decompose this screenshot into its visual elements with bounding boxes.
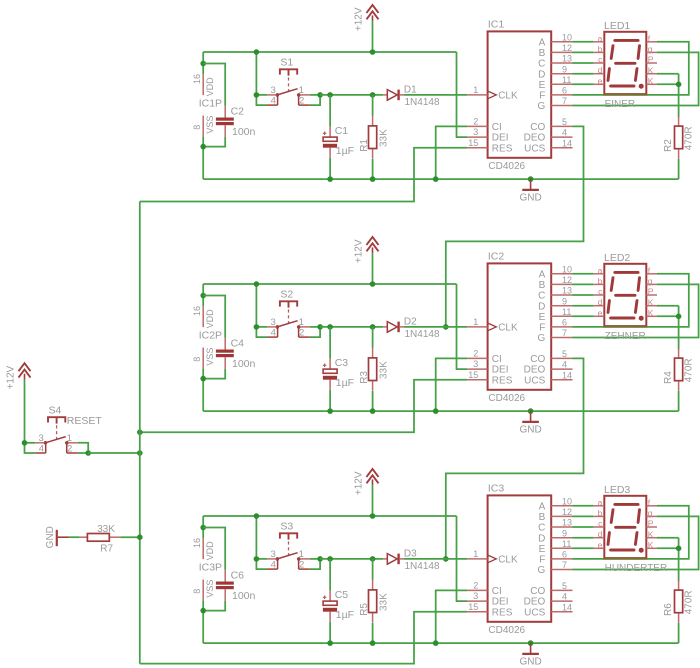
pushbutton S4 RESET <box>22 404 103 455</box>
svg-text:+12V: +12V <box>354 7 365 31</box>
wire C4 top branch <box>203 296 225 338</box>
junction C3 on clock net <box>327 324 333 330</box>
svg-text:CD4026: CD4026 <box>488 393 525 404</box>
svg-text:2: 2 <box>473 580 478 590</box>
svg-text:9: 9 <box>562 528 567 538</box>
svg-text:5: 5 <box>562 349 567 359</box>
resistor R5 33K <box>359 580 390 623</box>
svg-text:VDD: VDD <box>205 77 215 97</box>
wire R7 to reset bus <box>120 536 140 538</box>
junction R5 on GND rail <box>370 640 376 646</box>
svg-text:D: D <box>538 69 545 80</box>
diode D2 1N4148 <box>383 317 440 341</box>
svg-text:7: 7 <box>562 560 567 570</box>
junction R7 on reset bus <box>137 534 143 540</box>
svg-text:B: B <box>539 48 546 59</box>
svg-text:4: 4 <box>271 559 276 570</box>
wire VDD drop (IC3P) <box>202 516 204 538</box>
svg-text:12: 12 <box>562 43 572 53</box>
svg-text:13: 13 <box>562 286 572 296</box>
wire GND rail (IC1 stage) <box>203 178 678 180</box>
svg-text:1N4148: 1N4148 <box>405 97 440 108</box>
wire segment G net (IC2 to LED2) <box>573 284 699 337</box>
ground GND (IC1 stage) <box>519 179 541 203</box>
svg-text:C3: C3 <box>335 357 349 369</box>
svg-text:CI: CI <box>492 122 502 133</box>
svg-text:CD4026: CD4026 <box>488 161 525 172</box>
svg-text:c: c <box>598 55 603 65</box>
svg-text:DEI: DEI <box>492 133 509 144</box>
wire C6 bottom branch <box>203 601 225 611</box>
junction VSS/C4 <box>200 376 206 382</box>
svg-text:15: 15 <box>468 370 478 380</box>
svg-text:3: 3 <box>473 591 478 601</box>
wire C3 drop <box>329 327 331 359</box>
svg-text:8: 8 <box>192 589 202 594</box>
svg-text:1N4148: 1N4148 <box>405 561 440 572</box>
svg-text:GND: GND <box>519 192 541 203</box>
wire GND rail (IC2 stage) <box>203 410 678 412</box>
junction switch branch on rail (S2) <box>254 281 260 287</box>
svg-text:GND: GND <box>45 526 56 548</box>
wire VDD drop (IC1P) <box>202 52 204 74</box>
wire K net (LED3 cathodes) <box>657 538 679 582</box>
svg-text:13: 13 <box>562 518 572 528</box>
svg-text:9: 9 <box>562 296 567 306</box>
svg-text:4: 4 <box>562 360 567 370</box>
wire segment F net (IC3 to LED3) <box>573 506 689 559</box>
wire segment B net (IC1 to LED1) <box>573 51 594 53</box>
svg-text:2: 2 <box>67 443 72 454</box>
junction +12V stem (IC1 stage) <box>370 49 376 55</box>
svg-text:33K: 33K <box>379 361 390 379</box>
svg-text:CD4026: CD4026 <box>488 625 525 636</box>
wire RES pin 15 to reset bus (IC3) <box>140 612 467 664</box>
svg-text:3: 3 <box>473 127 478 137</box>
svg-text:8: 8 <box>192 357 202 362</box>
svg-text:VSS: VSS <box>205 348 215 366</box>
svg-text:LED2: LED2 <box>604 252 630 264</box>
svg-text:33K: 33K <box>379 129 390 147</box>
svg-text:100n: 100n <box>232 590 256 602</box>
junction reset bus (IC2) <box>137 429 143 435</box>
junction K net (LED3) <box>676 546 682 552</box>
wire C4 bottom branch <box>203 369 225 379</box>
svg-text:14: 14 <box>562 602 572 612</box>
wire R5 drop <box>372 559 374 580</box>
svg-text:a: a <box>598 497 603 507</box>
svg-text:R6: R6 <box>663 603 674 616</box>
wire switch branch (S3) <box>255 516 257 559</box>
svg-text:16: 16 <box>192 306 202 316</box>
7-segment display LED1 <box>594 20 657 110</box>
svg-text:S2: S2 <box>280 289 293 301</box>
svg-text:S3: S3 <box>280 521 293 533</box>
svg-text:C: C <box>538 291 545 302</box>
wire D3 cathode to CLK pin 1 <box>404 558 467 560</box>
junction R1 on GND rail <box>370 176 376 182</box>
svg-text:E: E <box>539 80 546 91</box>
resistor R2 470R <box>663 116 694 159</box>
wire segment G net (IC3 to LED3) <box>573 516 699 569</box>
svg-text:100n: 100n <box>232 126 256 138</box>
wire CI pin 2 to GND (IC3) <box>436 590 467 643</box>
capacitor C4 100n <box>216 337 256 370</box>
wire CI pin 2 to GND (IC1) <box>436 126 467 179</box>
wire clock net S3 to D3 <box>320 558 383 560</box>
svg-text:R7: R7 <box>100 543 113 554</box>
wire segment E net (IC2 to LED2) <box>573 315 594 317</box>
wire CO pin 5 of IC1 to next stage clock <box>446 126 584 327</box>
junction VDD/C6 (IC3P) <box>200 525 206 531</box>
wire R4 to GND rail <box>678 391 680 411</box>
svg-text:2: 2 <box>299 559 304 570</box>
svg-text:100n: 100n <box>232 358 256 370</box>
svg-text:HUNDERTER: HUNDERTER <box>605 563 668 574</box>
svg-text:e: e <box>598 308 603 318</box>
svg-text:CLK: CLK <box>498 90 518 101</box>
svg-text:9: 9 <box>562 64 567 74</box>
svg-text:K: K <box>648 540 654 550</box>
svg-text:c: c <box>598 519 603 529</box>
wire clock net S1 to D1 <box>320 94 383 96</box>
svg-text:CLK: CLK <box>498 322 518 333</box>
capacitor C1 1µF <box>323 125 354 158</box>
svg-text:E: E <box>539 544 546 555</box>
wire segment A net (IC1 to LED1) <box>573 41 594 43</box>
svg-text:11: 11 <box>562 75 571 85</box>
junction K net (LED1) <box>676 82 682 88</box>
junction next stage clock (from IC2 CO) <box>443 556 449 562</box>
svg-text:DEO: DEO <box>524 365 546 376</box>
wire VSS to GND rail (IC3P) <box>202 601 204 644</box>
svg-text:CO: CO <box>530 586 545 597</box>
svg-text:1µF: 1µF <box>336 377 354 389</box>
svg-text:DEO: DEO <box>524 597 546 608</box>
resistor R6 470R <box>663 580 694 623</box>
wire segment D net (IC2 to LED2) <box>573 305 594 307</box>
svg-text:LED3: LED3 <box>604 484 630 496</box>
svg-text:VDD: VDD <box>205 541 215 561</box>
svg-text:UCS: UCS <box>524 607 545 618</box>
junction C1 on GND rail <box>327 176 333 182</box>
svg-text:1N4148: 1N4148 <box>405 329 440 340</box>
svg-text:1µF: 1µF <box>336 609 354 621</box>
diode D3 1N4148 <box>383 549 440 573</box>
svg-text:2: 2 <box>473 348 478 358</box>
wire VDD drop (IC2P) <box>202 284 204 306</box>
svg-text:F: F <box>539 555 545 566</box>
wire C2 bottom branch <box>203 137 225 147</box>
wire GND rail (IC3 stage) <box>203 642 678 644</box>
svg-text:C: C <box>538 59 545 70</box>
svg-text:IC1: IC1 <box>488 18 505 30</box>
wire segment F net (IC2 to LED2) <box>573 274 689 327</box>
wire C2 top branch <box>203 64 225 106</box>
supply +12V symbol (IC3 stage) <box>354 469 379 495</box>
svg-text:F: F <box>539 323 545 334</box>
svg-text:C: C <box>538 523 545 534</box>
svg-text:RES: RES <box>492 375 513 386</box>
wire +12V stem (IC1 stage) <box>372 21 374 52</box>
svg-text:K: K <box>648 76 654 86</box>
wire D2 cathode to CLK pin 1 <box>404 326 467 328</box>
wire VSS to GND rail (IC1P) <box>202 137 204 180</box>
svg-text:G: G <box>538 565 546 576</box>
wire switch branch (S2) <box>255 284 257 327</box>
svg-text:e: e <box>598 540 603 550</box>
svg-text:10: 10 <box>562 32 572 42</box>
svg-text:D1: D1 <box>404 85 417 96</box>
svg-text:2: 2 <box>299 95 304 106</box>
junction K net (LED2) <box>676 314 682 320</box>
svg-text:1: 1 <box>473 317 478 327</box>
svg-text:A: A <box>539 269 546 280</box>
junction R1 on clock net <box>370 92 376 98</box>
wire RES pin 15 to reset bus (IC2) <box>140 380 467 432</box>
wire segment D net (IC3 to LED3) <box>573 537 594 539</box>
junction switch branch on rail (S3) <box>254 513 260 519</box>
wire segment B net (IC2 to LED2) <box>573 283 594 285</box>
svg-text:K: K <box>648 529 654 539</box>
7-segment display LED2 <box>594 252 657 342</box>
wire D1 cathode to CLK pin 1 <box>404 94 467 96</box>
wire switch branch (S1) <box>255 52 257 95</box>
wire DEI drop to pin 3 of IC2 <box>457 284 468 369</box>
svg-text:+12V: +12V <box>354 239 365 263</box>
junction CI on GND rail (IC3) <box>433 640 439 646</box>
svg-text:EINER: EINER <box>605 99 636 110</box>
wire segment B net (IC3 to LED3) <box>573 515 594 517</box>
wire R1 drop <box>372 95 374 116</box>
svg-text:a: a <box>598 265 603 275</box>
wire C6 top branch <box>203 528 225 570</box>
svg-text:C1: C1 <box>335 125 349 137</box>
junction switch branch on rail (S1) <box>254 49 260 55</box>
power pins IC2P <box>192 306 222 369</box>
svg-text:470R: 470R <box>683 590 694 614</box>
svg-text:1µF: 1µF <box>336 145 354 157</box>
svg-text:+12V: +12V <box>6 365 17 389</box>
ground GND (IC2 stage) <box>519 411 541 435</box>
svg-text:CI: CI <box>492 354 502 365</box>
wire GND to R7 <box>69 536 80 538</box>
wire +12V rail (IC2 stage) <box>203 283 456 285</box>
junction S4 on reset bus <box>137 450 143 456</box>
svg-text:B: B <box>539 280 546 291</box>
power pins IC3P <box>192 538 222 601</box>
svg-text:2: 2 <box>299 327 304 338</box>
svg-text:16: 16 <box>192 74 202 84</box>
diode D1 1N4148 <box>383 85 440 109</box>
svg-text:1: 1 <box>473 549 478 559</box>
svg-text:14: 14 <box>562 138 572 148</box>
svg-text:DEI: DEI <box>492 365 509 376</box>
wire R3 drop <box>372 327 374 348</box>
wire C5 to GND rail <box>329 622 331 643</box>
svg-text:10: 10 <box>562 264 572 274</box>
svg-text:C5: C5 <box>335 589 349 601</box>
svg-text:IC3: IC3 <box>488 482 505 494</box>
svg-text:g: g <box>648 44 653 54</box>
wire K net (LED2 cathodes) <box>657 306 679 350</box>
wire RES pin 15 to reset bus (IC1) <box>140 148 467 202</box>
svg-text:10: 10 <box>562 496 572 506</box>
svg-text:VSS: VSS <box>205 580 215 598</box>
svg-text:16: 16 <box>192 538 202 548</box>
svg-text:5: 5 <box>562 581 567 591</box>
svg-text:GND: GND <box>519 656 541 667</box>
svg-text:IC1P: IC1P <box>199 98 222 110</box>
junction R5 on clock net <box>370 556 376 562</box>
svg-text:6: 6 <box>562 550 567 560</box>
wire K net (LED1 cathodes) <box>657 74 679 118</box>
svg-text:GND: GND <box>519 424 541 435</box>
svg-text:UCS: UCS <box>524 375 545 386</box>
svg-text:5: 5 <box>562 117 567 127</box>
wire S4 to reset bus <box>88 452 140 454</box>
wire segment A net (IC2 to LED2) <box>573 273 594 275</box>
svg-text:b: b <box>598 276 603 286</box>
wire segment D net (IC1 to LED1) <box>573 73 594 75</box>
svg-text:P: P <box>648 287 654 297</box>
capacitor C2 100n <box>216 105 256 138</box>
wire +12V to S4 <box>24 380 26 443</box>
wire R2 to GND rail <box>678 159 680 179</box>
svg-text:VSS: VSS <box>205 116 215 134</box>
svg-text:CO: CO <box>530 354 545 365</box>
power pins IC1P <box>192 74 222 137</box>
svg-text:G: G <box>538 333 546 344</box>
svg-text:4: 4 <box>271 327 276 338</box>
junction GND symbol (IC3 stage) <box>528 640 534 646</box>
svg-text:S1: S1 <box>280 57 293 69</box>
svg-text:S4: S4 <box>49 404 62 416</box>
svg-text:6: 6 <box>562 318 567 328</box>
ground GND (IC3 stage) <box>519 643 541 667</box>
wire C5 drop <box>329 559 331 591</box>
svg-text:a: a <box>598 33 603 43</box>
svg-text:d: d <box>598 529 603 539</box>
svg-text:K: K <box>648 297 654 307</box>
wire VSS to GND rail (IC2P) <box>202 369 204 412</box>
resistor R1 33K <box>359 116 390 159</box>
wire clock net S2 to D2 <box>320 326 383 328</box>
wire segment A net (IC3 to LED3) <box>573 505 594 507</box>
junction C5 on clock net <box>327 556 333 562</box>
svg-text:b: b <box>598 508 603 518</box>
svg-text:K: K <box>648 65 654 75</box>
svg-text:K: K <box>648 308 654 318</box>
svg-text:LED1: LED1 <box>604 20 630 32</box>
wire C1 to GND rail <box>329 158 331 179</box>
svg-text:15: 15 <box>468 602 478 612</box>
svg-text:RES: RES <box>492 143 513 154</box>
junction +12V stem (IC2 stage) <box>370 281 376 287</box>
wire reset bus <box>139 202 141 664</box>
counter IC IC1 CD4026 <box>467 18 573 171</box>
svg-text:33K: 33K <box>97 524 115 535</box>
svg-text:R2: R2 <box>663 139 674 152</box>
svg-text:G: G <box>538 101 546 112</box>
pushbutton S2 <box>254 289 323 339</box>
svg-text:RESET: RESET <box>67 415 103 427</box>
junction +12V stem (IC3 stage) <box>370 513 376 519</box>
junction VDD/C4 (IC2P) <box>200 293 206 299</box>
svg-text:12: 12 <box>562 275 572 285</box>
svg-text:D3: D3 <box>404 549 417 560</box>
svg-text:11: 11 <box>562 539 571 549</box>
junction VSS/C6 <box>200 608 206 614</box>
wire segment E net (IC3 to LED3) <box>573 547 594 549</box>
svg-text:ZEHNER: ZEHNER <box>605 331 646 342</box>
svg-text:d: d <box>598 297 603 307</box>
supply +12V symbol (IC1 stage) <box>354 5 379 31</box>
pushbutton S1 <box>254 57 323 107</box>
svg-text:D2: D2 <box>404 317 417 328</box>
junction VDD/C2 (IC1P) <box>200 61 206 67</box>
wire segment C net (IC3 to LED3) <box>573 526 594 528</box>
wire R1 to GND rail <box>372 159 374 179</box>
svg-text:g: g <box>648 276 653 286</box>
supply +12V symbol (IC2 stage) <box>354 237 379 263</box>
svg-text:e: e <box>598 76 603 86</box>
junction GND symbol (IC1 stage) <box>528 176 534 182</box>
svg-text:c: c <box>598 287 603 297</box>
junction GND symbol (IC2 stage) <box>528 408 534 414</box>
svg-text:b: b <box>598 44 603 54</box>
junction C5 on GND rail <box>327 640 333 646</box>
svg-text:4: 4 <box>39 443 44 454</box>
svg-text:A: A <box>539 501 546 512</box>
wire +12V stem (IC2 stage) <box>372 253 374 284</box>
wire R6 to GND rail <box>678 623 680 643</box>
svg-text:DEO: DEO <box>524 133 546 144</box>
junction next stage clock (from IC1 CO) <box>443 324 449 330</box>
wire CO pin 5 of IC2 to next stage clock <box>446 358 584 559</box>
svg-text:CO: CO <box>530 122 545 133</box>
wire R5 to GND rail <box>372 623 374 643</box>
svg-text:P: P <box>648 519 654 529</box>
wire +12V stem (IC3 stage) <box>372 485 374 516</box>
svg-text:15: 15 <box>468 138 478 148</box>
wire R3 to GND rail <box>372 391 374 411</box>
capacitor C5 1µF <box>323 589 354 622</box>
svg-text:4: 4 <box>562 128 567 138</box>
resistor R4 470R <box>663 348 694 391</box>
wire segment G net (IC1 to LED1) <box>573 52 699 105</box>
svg-text:C2: C2 <box>231 105 245 117</box>
svg-text:14: 14 <box>562 370 572 380</box>
svg-text:C4: C4 <box>231 337 245 349</box>
wire C1 drop <box>329 95 331 127</box>
svg-text:11: 11 <box>562 307 571 317</box>
pushbutton S3 <box>254 521 323 571</box>
svg-text:IC2P: IC2P <box>199 330 222 342</box>
svg-text:6: 6 <box>562 86 567 96</box>
svg-text:4: 4 <box>562 592 567 602</box>
svg-text:g: g <box>648 508 653 518</box>
svg-text:DEI: DEI <box>492 597 509 608</box>
svg-text:VDD: VDD <box>205 309 215 329</box>
wire segment E net (IC1 to LED1) <box>573 83 594 85</box>
svg-text:CI: CI <box>492 586 502 597</box>
capacitor C3 1µF <box>323 357 354 390</box>
svg-text:3: 3 <box>473 359 478 369</box>
wire C3 to GND rail <box>329 390 331 411</box>
svg-text:R1: R1 <box>359 139 370 152</box>
svg-text:2: 2 <box>473 116 478 126</box>
